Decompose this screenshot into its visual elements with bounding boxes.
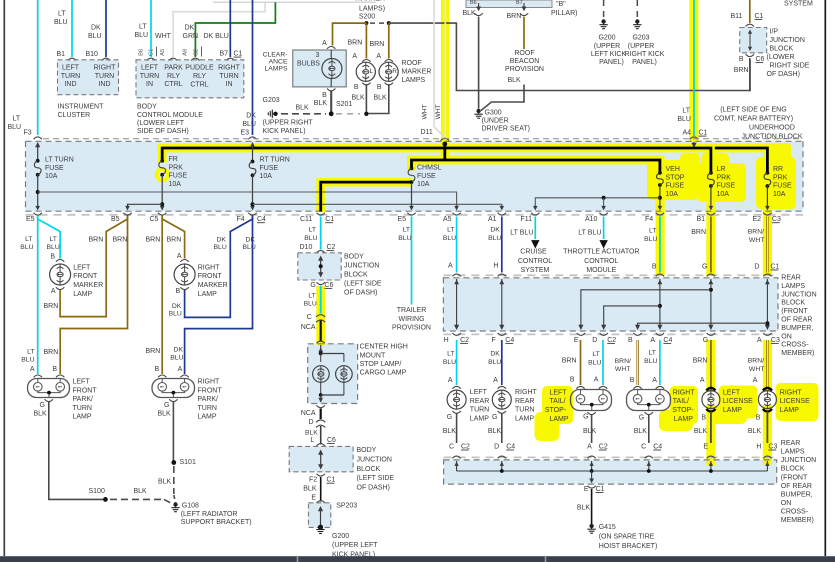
svg-text:I/P: I/P	[770, 29, 779, 36]
pin B/C6 connector	[746, 54, 754, 56]
svg-text:FUSE: FUSE	[717, 183, 736, 190]
rear lamps junction block 1 fill	[443, 278, 778, 331]
thick feed bus 1	[162, 148, 711, 173]
svg-text:PROVISION: PROVISION	[505, 66, 544, 73]
svg-text:BLK: BLK	[134, 488, 148, 495]
wire BRN to I/P junction block B11	[749, 0, 751, 23]
svg-text:JUNCTION: JUNCTION	[770, 37, 805, 44]
svg-text:BRN: BRN	[44, 303, 59, 310]
svg-text:DK: DK	[246, 236, 256, 243]
splice S200 dots	[364, 21, 368, 25]
wire BLK left license down	[710, 412, 712, 444]
splice S100 dot	[103, 497, 108, 502]
pin E3 connector	[248, 137, 256, 139]
rear block 1 bottom face dashes	[443, 333, 778, 335]
CHMSL internal bottom	[319, 393, 323, 397]
clearance lamp bulb	[322, 59, 342, 79]
svg-text:LEFT: LEFT	[723, 389, 741, 396]
wire LT BLU to A4	[693, 0, 695, 136]
svg-text:A: A	[30, 366, 35, 373]
svg-text:IN: IN	[226, 81, 233, 88]
svg-text:A: A	[757, 337, 762, 344]
svg-text:LAMP: LAMP	[780, 407, 799, 414]
svg-text:S101: S101	[180, 459, 196, 466]
svg-text:TURN: TURN	[198, 405, 217, 412]
svg-text:OF REAR: OF REAR	[781, 483, 812, 490]
svg-text:A: A	[448, 377, 453, 384]
pin G right rear turn connector	[498, 411, 506, 413]
pin CHMSL bottom connector	[317, 405, 325, 407]
svg-text:FUSE: FUSE	[260, 165, 279, 172]
svg-text:RIGHT: RIGHT	[94, 65, 117, 72]
svg-text:A: A	[322, 40, 327, 47]
svg-text:H: H	[493, 263, 498, 270]
pin A left license heavy connector	[706, 388, 715, 391]
svg-text:MARKER: MARKER	[402, 69, 432, 76]
svg-text:BLU: BLU	[243, 244, 256, 251]
svg-text:PARK: PARK	[164, 65, 183, 72]
svg-text:B: B	[50, 254, 55, 261]
svg-text:B: B	[652, 263, 657, 270]
svg-text:FUSE: FUSE	[45, 165, 64, 172]
underhood box bottom edge	[26, 210, 804, 212]
pin A left rear turn connector	[452, 386, 460, 388]
svg-text:MEMBER): MEMBER)	[781, 517, 814, 524]
instrument cluster box border	[58, 60, 119, 95]
wire BLK left marker to splice	[365, 84, 367, 114]
svg-text:(UPPER LEFT: (UPPER LEFT	[332, 542, 378, 549]
svg-text:LAMP: LAMP	[73, 414, 92, 421]
svg-text:C1: C1	[234, 51, 243, 58]
right rear turn lamp	[492, 390, 511, 409]
svg-text:10A: 10A	[717, 191, 730, 198]
wire LT BLU H to left rear turn	[456, 340, 458, 385]
svg-text:BRN: BRN	[167, 237, 182, 244]
svg-text:FUSE: FUSE	[666, 183, 685, 190]
wire dashed S201 to marker ground dot	[336, 113, 360, 115]
svg-text:BULBS: BULBS	[297, 61, 320, 68]
svg-text:B: B	[739, 56, 744, 63]
wire DK BLU to right turn in	[229, 0, 231, 57]
svg-text:H: H	[756, 443, 761, 450]
svg-text:TURN: TURN	[95, 73, 114, 80]
svg-text:PARK/: PARK/	[73, 396, 94, 403]
rear block 1 top face dashes	[443, 274, 778, 276]
wire LT BLU F4 to rear block B	[659, 217, 661, 273]
wire DK BLU F to right rear turn	[501, 340, 503, 385]
I/P junction block internal arrow	[749, 32, 751, 50]
highlight band LR PRK to B1 and rear block G	[706, 186, 715, 276]
fuse VEH STOP	[658, 171, 662, 175]
svg-text:B6: B6	[139, 49, 145, 56]
svg-text:A: A	[352, 53, 357, 60]
svg-text:RLY: RLY	[193, 73, 206, 80]
svg-text:G415: G415	[599, 524, 616, 531]
underhood box top face dashes	[43, 138, 803, 140]
svg-text:A1: A1	[488, 216, 497, 223]
svg-text:CONTROL MODULE: CONTROL MODULE	[137, 112, 203, 119]
svg-text:WHT: WHT	[749, 237, 764, 244]
svg-text:BLU: BLU	[135, 32, 149, 39]
svg-text:C4: C4	[506, 443, 515, 450]
svg-text:LAMP: LAMP	[674, 416, 693, 423]
thick feed bus 3	[715, 148, 768, 173]
highlight ring FR PRK fuse dot	[157, 169, 168, 180]
svg-text:MOUNT: MOUNT	[360, 352, 386, 359]
svg-text:ROOF: ROOF	[402, 60, 422, 67]
svg-text:C4: C4	[505, 337, 514, 344]
svg-text:BLU: BLU	[47, 244, 60, 251]
svg-text:MARKER: MARKER	[198, 282, 228, 289]
svg-text:E5: E5	[398, 216, 407, 223]
wire BLK left tail down	[591, 415, 593, 444]
svg-text:D10: D10	[300, 244, 313, 251]
svg-text:(UNDER: (UNDER	[482, 118, 509, 125]
svg-text:C1: C1	[325, 216, 334, 223]
ground G200 symbol	[601, 19, 605, 23]
svg-text:C2: C2	[194, 49, 200, 56]
svg-text:BLU: BLU	[54, 19, 68, 26]
svg-text:H: H	[444, 337, 449, 344]
svg-text:CLUSTER: CLUSTER	[58, 112, 91, 119]
svg-text:OF DASH): OF DASH)	[357, 485, 390, 492]
pin B right license heavy connector	[763, 409, 772, 412]
svg-text:LEFT KICK: LEFT KICK	[591, 51, 627, 58]
svg-text:A: A	[650, 337, 655, 344]
highlight band left license lamp to block	[706, 405, 715, 465]
body junction block 2 fill	[289, 446, 353, 471]
svg-text:BLK: BLK	[305, 430, 318, 437]
svg-text:D: D	[754, 263, 759, 270]
highlight blob LEFT TAIL/STOP-LAMP text	[542, 386, 573, 424]
body junction block 2 arrow	[320, 452, 322, 468]
rear block 2 border	[444, 460, 777, 484]
svg-text:BLOCK: BLOCK	[344, 271, 368, 278]
svg-text:CONTROL: CONTROL	[584, 258, 618, 265]
pin B1 connector	[68, 58, 76, 60]
bottom bar divider 2	[545, 556, 547, 562]
wire LT BLU to F3	[37, 0, 39, 135]
svg-text:B1: B1	[697, 216, 706, 223]
svg-text:STOP-: STOP-	[672, 407, 694, 414]
svg-text:D11: D11	[421, 129, 433, 136]
wire DK BLU to E3	[252, 0, 254, 135]
SP203 internal arrow	[320, 508, 322, 527]
wire BLK left rear turn down	[456, 414, 458, 444]
branch FR PRK to B5	[128, 204, 163, 209]
svg-text:LAMP: LAMP	[198, 291, 217, 298]
pin G left tail connector	[587, 412, 595, 414]
svg-text:LT: LT	[308, 292, 315, 299]
CHMSL right bulb	[343, 354, 345, 363]
wire LT BLU C11 to body junction block	[320, 217, 322, 250]
svg-text:SP203: SP203	[336, 502, 357, 509]
pin G left park lamp connector	[45, 399, 53, 401]
pin G left rear turn connector	[452, 411, 460, 413]
underhood box bottom pin connectors	[34, 213, 42, 215]
highlight blob LR PRK fuse text	[697, 163, 746, 202]
svg-text:BLU: BLU	[304, 301, 317, 308]
svg-text:BLU: BLU	[443, 359, 456, 366]
wire LT BLU E5 down to left park lamp A	[37, 217, 39, 375]
wire BRN G to left license lamp	[710, 340, 712, 390]
pin A4 connector	[690, 137, 698, 139]
svg-text:WHT: WHT	[749, 366, 764, 373]
left front marker lamp	[50, 264, 71, 285]
highlight band bus 3	[715, 144, 772, 153]
right license lamp	[758, 391, 776, 409]
svg-text:BRN: BRN	[691, 229, 706, 236]
svg-text:OF DASH): OF DASH)	[344, 289, 377, 296]
svg-text:FRONT: FRONT	[198, 387, 223, 394]
svg-text:A5: A5	[443, 216, 452, 223]
svg-text:BRN: BRN	[734, 67, 749, 74]
svg-text:BLU: BLU	[488, 359, 501, 366]
svg-text:BRN: BRN	[348, 40, 363, 47]
svg-text:FUSE: FUSE	[169, 173, 188, 180]
wire LT BLU A to right tail lamp A	[659, 340, 661, 385]
svg-text:(LOWER LEFT: (LOWER LEFT	[137, 120, 185, 127]
svg-text:C3: C3	[771, 337, 780, 344]
svg-text:CROSS-: CROSS-	[781, 342, 809, 349]
svg-text:RIGHT KICK: RIGHT KICK	[625, 51, 665, 58]
svg-text:REAR: REAR	[470, 398, 489, 405]
ground G300	[476, 109, 480, 113]
svg-text:F11: F11	[521, 216, 533, 223]
wire BRN to right roof marker	[388, 23, 390, 58]
svg-text:LT BLU: LT BLU	[578, 229, 601, 236]
wire BRN roof beacon provision	[523, 17, 525, 50]
svg-text:E: E	[703, 443, 708, 450]
inline connector C/NCA	[316, 315, 325, 317]
svg-text:E: E	[574, 337, 579, 344]
highlight band CHMSL feed corner	[407, 156, 416, 171]
svg-text:B: B	[52, 366, 57, 373]
svg-text:BLK: BLK	[158, 411, 172, 418]
svg-text:OF DASH): OF DASH)	[767, 71, 800, 78]
wire BRN E to left tail lamp B	[580, 340, 582, 385]
svg-text:LT: LT	[592, 351, 599, 358]
svg-text:(ON SPARE TIRE: (ON SPARE TIRE	[599, 534, 655, 541]
pin A right front marker connector	[180, 260, 188, 262]
svg-text:C2: C2	[599, 443, 608, 450]
svg-text:S201: S201	[336, 101, 352, 108]
pin A right license heavy connector	[763, 388, 772, 391]
svg-text:BLU: BLU	[214, 244, 227, 251]
svg-text:C5: C5	[150, 216, 159, 223]
wire LT BLU to B1	[71, 0, 73, 57]
svg-text:(FRONT: (FRONT	[781, 474, 808, 481]
svg-text:DK: DK	[490, 227, 500, 234]
svg-text:A: A	[652, 377, 657, 384]
svg-text:A: A	[448, 263, 453, 270]
wire BLK connector to CHMSL box	[320, 321, 322, 342]
svg-text:CENTER HIGH: CENTER HIGH	[360, 344, 408, 351]
svg-text:LAMP: LAMP	[723, 407, 742, 414]
svg-text:JUNCTION: JUNCTION	[781, 291, 816, 298]
svg-text:LEFT: LEFT	[470, 389, 488, 396]
svg-text:CTRL: CTRL	[190, 82, 208, 89]
highlight blob LEFT LICENSE LAMP text	[719, 386, 758, 419]
pin D10 connector	[317, 251, 325, 253]
wire DK BLU C4 down with jog to right park lamp A	[185, 217, 253, 375]
svg-text:SUPPORT BRACKET): SUPPORT BRACKET)	[181, 519, 252, 526]
svg-text:C3: C3	[772, 216, 781, 223]
svg-text:TAIL/: TAIL/	[673, 398, 689, 405]
svg-text:BRN/: BRN/	[615, 358, 631, 365]
svg-text:BODY: BODY	[344, 253, 364, 260]
svg-text:DK: DK	[185, 25, 195, 32]
highlight band RR PRK feed corner	[763, 144, 772, 176]
body junction block 2 border	[289, 446, 353, 471]
svg-text:TURN: TURN	[515, 407, 534, 414]
svg-text:DK: DK	[246, 113, 256, 120]
wire LT BLU E5b to trailer provision	[411, 217, 413, 305]
svg-text:G: G	[492, 414, 497, 421]
svg-text:"B": "B"	[556, 1, 566, 8]
pin connector right turn in	[226, 58, 234, 60]
rear block 2 top pin connectors	[452, 456, 460, 458]
wire BLK dashed G203 to S201	[281, 113, 326, 115]
instrument cluster box fill	[58, 60, 119, 95]
svg-text:BLK: BLK	[577, 505, 591, 512]
highlight band G wire to left license lamp	[706, 340, 715, 392]
svg-text:TURN: TURN	[219, 73, 238, 80]
svg-text:IND: IND	[98, 81, 110, 88]
wire WHT highlighted to D11	[444, 0, 446, 138]
svg-text:TAIL/: TAIL/	[549, 398, 565, 405]
wire dashed between S200 dots	[370, 22, 385, 24]
svg-text:F4: F4	[237, 216, 245, 223]
svg-text:ON: ON	[781, 333, 792, 340]
pin B right marker connector	[385, 83, 393, 85]
fuse LR PRK	[709, 171, 713, 175]
svg-text:RIGHT: RIGHT	[673, 389, 696, 396]
svg-text:G200: G200	[332, 533, 349, 540]
pin G right tail connector	[645, 412, 653, 414]
svg-text:BLU: BLU	[170, 354, 183, 361]
svg-text:JUNCTION BLOCK: JUNCTION BLOCK	[741, 134, 802, 141]
svg-text:RLY: RLY	[167, 73, 180, 80]
svg-text:BLK: BLK	[508, 77, 522, 84]
svg-text:C6: C6	[324, 282, 333, 289]
svg-text:TURN: TURN	[140, 73, 159, 80]
svg-text:DK: DK	[217, 236, 227, 243]
svg-text:C4: C4	[663, 337, 672, 344]
pin L/C6 connector	[317, 444, 325, 446]
svg-text:INSTRUMENT: INSTRUMENT	[58, 104, 105, 111]
body junction block 1 arrow	[320, 258, 322, 276]
inline connector D	[316, 420, 325, 422]
wire BRN B5 down with jog to left park lamp B	[60, 217, 127, 375]
svg-text:KICK PANEL): KICK PANEL)	[263, 128, 306, 135]
left rear turn lamp	[447, 390, 466, 409]
svg-text:C2: C2	[461, 443, 470, 450]
svg-text:BRN: BRN	[44, 349, 59, 356]
rear block internal G to G with branch	[710, 279, 712, 328]
svg-text:BRN: BRN	[562, 357, 577, 364]
svg-text:GRN: GRN	[183, 33, 199, 40]
thick feed bus 2	[412, 160, 660, 173]
svg-text:D: D	[494, 443, 499, 450]
svg-text:BUMPER,: BUMPER,	[781, 325, 813, 332]
svg-text:B: B	[756, 414, 761, 421]
rear block internal H to F	[501, 279, 503, 328]
highlight band FR PRK feed corner	[158, 144, 167, 163]
svg-text:C3: C3	[768, 443, 777, 450]
svg-text:WHT: WHT	[615, 366, 630, 373]
svg-text:S100: S100	[89, 488, 105, 495]
svg-text:LEFT: LEFT	[73, 264, 91, 271]
svg-text:ANCE: ANCE	[269, 59, 288, 66]
pin connectors left tail	[576, 386, 584, 388]
wire BLK right marker elbow	[368, 84, 389, 114]
svg-text:TURN: TURN	[61, 73, 80, 80]
fuse CHMSL	[410, 167, 414, 171]
svg-text:BLK: BLK	[583, 428, 597, 435]
svg-text:BLU: BLU	[21, 356, 34, 363]
wire BRN/WHT D to right license lamp	[766, 340, 768, 390]
rear block 1 bottom pin connectors	[452, 333, 460, 335]
svg-text:G: G	[164, 402, 169, 409]
pin A right rear turn connector	[498, 386, 506, 388]
svg-text:BLU: BLU	[443, 235, 456, 242]
wire WHT plain	[434, 0, 445, 138]
svg-text:LT: LT	[50, 236, 57, 243]
svg-text:CROSS-: CROSS-	[781, 509, 809, 516]
highlight blob RIGHT LICENSE LAMP text	[776, 383, 819, 421]
svg-text:(LOWER: (LOWER	[767, 54, 795, 61]
svg-text:G200: G200	[598, 35, 615, 42]
bus VEH STOP to F11 A10	[535, 198, 660, 209]
pin G/C6 connector	[317, 282, 325, 284]
svg-text:ON: ON	[781, 500, 792, 507]
svg-text:BRN: BRN	[89, 237, 104, 244]
svg-text:BLU: BLU	[677, 116, 691, 123]
svg-text:BEACON: BEACON	[510, 58, 540, 65]
svg-text:BLOCK: BLOCK	[781, 466, 805, 473]
svg-text:(LEFT SIDE: (LEFT SIDE	[344, 280, 382, 287]
svg-text:E2: E2	[753, 216, 762, 223]
svg-text:LAMP: LAMP	[470, 415, 489, 422]
svg-text:LICENSE: LICENSE	[780, 398, 810, 405]
svg-text:B: B	[176, 288, 181, 295]
svg-text:UNDERHOOD: UNDERHOOD	[749, 125, 795, 132]
pin A left marker connector	[362, 60, 370, 62]
svg-text:BLK: BLK	[34, 411, 48, 418]
left page border	[3, 0, 5, 556]
svg-text:PROVISION: PROVISION	[392, 325, 431, 332]
svg-text:DK: DK	[172, 303, 182, 310]
pin B left marker connector	[362, 83, 370, 85]
pin F3 connector	[34, 137, 42, 139]
svg-text:A10: A10	[585, 216, 598, 223]
svg-text:BODY: BODY	[357, 447, 377, 454]
svg-text:FRONT: FRONT	[73, 387, 98, 394]
wire BRN C5 down to right park lamp B	[161, 217, 163, 375]
svg-text:E3: E3	[240, 130, 249, 137]
svg-text:A: A	[177, 253, 182, 260]
highlight band on WHT wire to D11	[441, 0, 450, 143]
clearance lamp pin stubs	[330, 50, 332, 59]
svg-text:B6: B6	[470, 0, 477, 6]
ground G203b dashed lead	[636, 0, 638, 19]
svg-text:BLOCK: BLOCK	[357, 466, 381, 473]
pin B10 connector	[102, 58, 110, 60]
svg-text:LT BLU: LT BLU	[510, 229, 533, 236]
svg-text:LEFT: LEFT	[141, 65, 159, 72]
svg-text:G203: G203	[263, 97, 280, 104]
